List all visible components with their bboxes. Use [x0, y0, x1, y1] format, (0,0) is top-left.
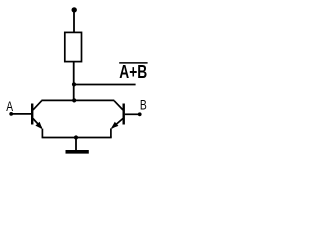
- svg-text:A: A: [6, 99, 13, 114]
- overline of output label: [119, 62, 147, 64]
- wire supply to resistor: [73, 10, 75, 33]
- wire resistor to collector rail: [73, 62, 75, 101]
- transistor Q1 (input A, NPN): [31, 101, 43, 130]
- svg-text:A+B: A+B: [119, 62, 147, 82]
- power supply terminal dot: [72, 7, 77, 12]
- node ground junction: [74, 135, 78, 139]
- input terminal B dot: [138, 112, 142, 116]
- wire output: [74, 84, 136, 86]
- ground bar: [66, 150, 89, 154]
- transistor Q2 (input B, NPN, mirrored): [111, 101, 125, 129]
- ground stem wire: [75, 138, 77, 151]
- node collector junction: [72, 98, 76, 102]
- input terminal A dot: [9, 112, 13, 116]
- node output junction: [72, 82, 76, 86]
- wire emitter Q1 to bottom rail: [41, 129, 43, 138]
- collector rail wire: [41, 99, 114, 101]
- wire emitter Q2 to bottom rail: [110, 128, 112, 137]
- wire base B: [125, 113, 140, 115]
- resistor R1 (pull-up): [65, 32, 82, 61]
- bottom emitter rail wire: [42, 137, 112, 139]
- wire base A: [11, 113, 31, 115]
- svg-text:B: B: [140, 98, 147, 113]
